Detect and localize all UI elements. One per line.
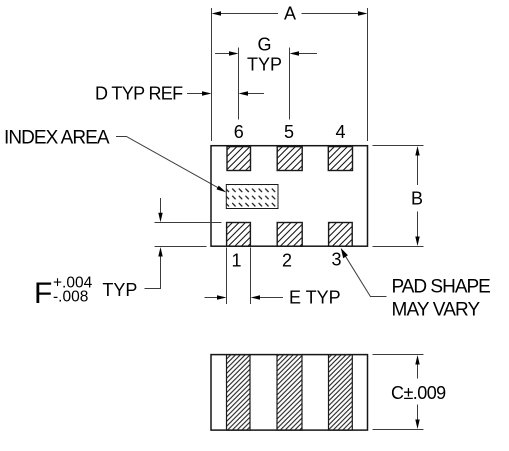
dimension G extension line left bbox=[238, 48, 240, 120]
dimension E left extension line bbox=[226, 248, 228, 305]
dimension B line with arrows bbox=[415, 146, 419, 246]
side view outline bbox=[211, 355, 368, 431]
dimension D right arrow bbox=[239, 91, 265, 95]
dimension B top extension line bbox=[373, 145, 424, 147]
svg-text:2: 2 bbox=[282, 251, 292, 271]
side view bar 2 bbox=[277, 355, 302, 431]
svg-text:3: 3 bbox=[331, 250, 341, 270]
pad 5 bbox=[277, 147, 302, 171]
svg-text:MAY VARY: MAY VARY bbox=[392, 300, 481, 321]
pad 3 bbox=[329, 223, 353, 247]
dimension G left arrow bbox=[215, 51, 239, 55]
dimension C bottom extension line bbox=[373, 429, 424, 431]
pad 4 bbox=[328, 147, 352, 171]
svg-text:TYP: TYP bbox=[247, 54, 282, 74]
svg-text:TYP: TYP bbox=[102, 280, 137, 300]
svg-text:1: 1 bbox=[231, 251, 241, 271]
svg-text:A: A bbox=[284, 3, 296, 23]
index area bbox=[226, 185, 278, 209]
dimension A extension line left bbox=[211, 8, 213, 141]
svg-text:PAD SHAPE: PAD SHAPE bbox=[392, 277, 491, 298]
side view bar 1 bbox=[227, 355, 251, 431]
pad 2 bbox=[277, 223, 302, 247]
dimension B bottom extension line bbox=[373, 246, 424, 248]
svg-text:5: 5 bbox=[284, 122, 294, 142]
dimension C line with arrows bbox=[415, 355, 419, 429]
index area leader line bbox=[116, 137, 226, 193]
side view bar 3 bbox=[329, 355, 353, 431]
pad 6 bbox=[227, 147, 251, 171]
svg-text:6: 6 bbox=[234, 122, 244, 142]
pad 1 bbox=[227, 223, 251, 247]
svg-text:D TYP REF: D TYP REF bbox=[95, 84, 183, 104]
svg-text:F: F bbox=[34, 277, 52, 310]
svg-text:INDEX AREA: INDEX AREA bbox=[4, 127, 110, 148]
pad shape leader line bbox=[341, 248, 387, 297]
package outline (top view) bbox=[211, 146, 368, 247]
svg-text:E TYP: E TYP bbox=[289, 288, 341, 308]
svg-text:B: B bbox=[411, 189, 423, 209]
dimension E left arrow bbox=[205, 295, 227, 299]
dimension A extension line right bbox=[367, 8, 369, 141]
dimension A line with arrows bbox=[212, 11, 368, 15]
dimension E right arrow bbox=[251, 295, 284, 299]
dimension G extension line right bbox=[289, 48, 291, 120]
dimension C top extension line bbox=[373, 354, 424, 356]
dimension F up arrow with leader bbox=[145, 247, 163, 289]
svg-text:-.008: -.008 bbox=[53, 289, 88, 306]
svg-text:4: 4 bbox=[335, 122, 345, 142]
svg-text:C±.009: C±.009 bbox=[391, 383, 446, 403]
dimension F top extension line bbox=[155, 222, 222, 224]
dimension D left arrow bbox=[187, 91, 212, 95]
dimension G right arrow bbox=[290, 51, 318, 55]
dimension F bottom extension line bbox=[155, 246, 207, 248]
svg-text:G: G bbox=[257, 34, 271, 54]
dimension F down arrow bbox=[158, 198, 162, 222]
dimension E right extension line bbox=[250, 248, 252, 305]
